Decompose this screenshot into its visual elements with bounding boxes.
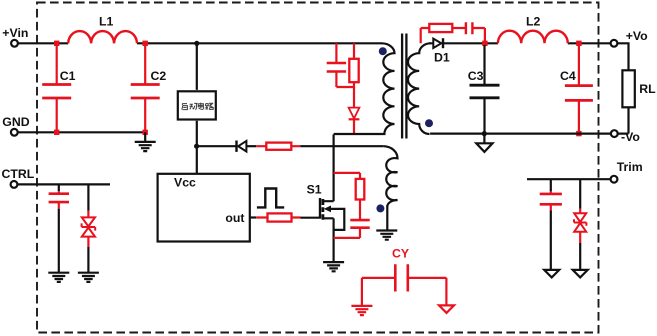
terminal CTRL <box>2 167 35 188</box>
svg-text:C1: C1 <box>60 69 76 83</box>
transformer core <box>402 34 406 139</box>
node D1 cathode <box>482 41 487 46</box>
primary polarity dot <box>379 47 387 55</box>
pulse waveform symbol <box>257 189 284 208</box>
wire CTRL rail <box>17 183 110 185</box>
wire secondary top rail <box>429 42 611 44</box>
svg-text:RL: RL <box>639 82 656 96</box>
capacitor (Trim filter) <box>540 179 562 270</box>
capacitor CY <box>362 247 447 306</box>
terminal -Vo <box>611 130 640 144</box>
resistor (Vcc feed) <box>256 143 300 150</box>
resistor (D1 snubber) <box>429 24 452 32</box>
wire Trim rail <box>527 178 611 180</box>
terminal +Vin <box>2 26 28 46</box>
wire snubber return <box>334 228 360 238</box>
diode D1 <box>433 38 450 64</box>
capacitor (CTRL filter) <box>49 184 69 272</box>
svg-text:D1: D1 <box>434 50 450 64</box>
RCD clamp: resistor branch <box>349 43 358 87</box>
diode (Vcc feed) <box>237 141 257 152</box>
ground (input rail) <box>135 132 156 151</box>
wire GND rail <box>18 131 146 133</box>
ground (CY primary side) <box>351 306 372 315</box>
capacitor C3 <box>468 45 500 134</box>
ground (secondary rail) <box>476 134 492 152</box>
wire gate lead <box>301 217 320 219</box>
aux polarity dot <box>376 204 384 212</box>
svg-text:C4: C4 <box>560 69 576 83</box>
wire snubber right drop <box>472 28 485 43</box>
svg-text:-Vo: -Vo <box>621 130 640 144</box>
resistor (gate drive) <box>256 213 300 221</box>
RC snubber across switch: wire top <box>334 173 360 179</box>
svg-text:L1: L1 <box>99 14 114 28</box>
capacitor (switch snubber) <box>350 220 369 228</box>
wire aux to ground <box>386 206 388 230</box>
terminal GND <box>2 115 29 136</box>
terminal +Vo <box>611 29 649 47</box>
TVS zener (CTRL) <box>82 184 96 272</box>
ground (CTRL capacitor) <box>48 273 69 282</box>
node feed <box>194 144 199 149</box>
wire startup drop <box>196 43 198 174</box>
svg-text:C2: C2 <box>151 69 167 83</box>
inductor L1 <box>68 14 137 43</box>
diode (clamp) <box>349 108 360 135</box>
svg-text:+Vin: +Vin <box>2 26 28 40</box>
inductor L2 <box>498 14 568 43</box>
svg-text:C3: C3 <box>468 69 484 83</box>
svg-text:L2: L2 <box>526 14 541 28</box>
ground (Trim capacitor) <box>544 270 559 278</box>
ground (Trim zener) <box>573 270 588 278</box>
wire secondary bottom rail <box>430 133 611 135</box>
ground (aux winding) <box>376 231 397 240</box>
transistor S1 (N-MOSFET) <box>307 183 345 230</box>
svg-text:Trim: Trim <box>617 160 643 174</box>
node startup-top <box>194 41 199 46</box>
wire snubber mid <box>452 27 466 29</box>
transformer primary winding <box>334 43 395 134</box>
node C1-top <box>54 41 59 46</box>
terminal Trim <box>611 160 643 183</box>
wire +Vin rail <box>18 42 382 44</box>
resistor (switch snubber) <box>356 179 365 200</box>
ground (CTRL zener) <box>78 273 99 282</box>
wire out lead <box>250 216 256 218</box>
transformer aux winding <box>383 146 397 207</box>
capacitor C2 <box>131 43 167 132</box>
TVS zener (Trim) <box>574 179 586 270</box>
wire drain <box>333 134 335 201</box>
node C2-top <box>143 41 148 46</box>
wire feed left <box>197 145 237 147</box>
node C2-bottom <box>143 130 148 135</box>
svg-text:GND: GND <box>2 115 29 129</box>
startup circuit box (qi dong dian lu) <box>178 91 216 119</box>
svg-text:out: out <box>225 211 244 225</box>
RCD clamp: junction wire <box>336 87 354 108</box>
node C4 top <box>576 41 581 46</box>
secondary polarity dot <box>425 119 433 127</box>
svg-text:CY: CY <box>392 247 409 261</box>
resistor RL (load) <box>617 43 656 133</box>
node C4 bottom <box>576 131 581 136</box>
RCD clamp: capacitor branch <box>327 43 346 87</box>
transformer secondary winding <box>408 43 430 134</box>
ground (CY secondary side) <box>439 305 454 313</box>
svg-text:CTRL: CTRL <box>2 167 35 181</box>
capacitor (D1 snubber) <box>466 22 473 34</box>
RC snubber over D1: left drop <box>421 28 430 43</box>
capacitor C4 <box>560 45 593 134</box>
IC box Vcc <box>158 174 250 242</box>
node C3 bottom <box>482 131 487 136</box>
wire source <box>333 218 335 261</box>
ground (source) <box>323 262 344 271</box>
wire snubber mid <box>359 200 361 221</box>
svg-text:Vcc: Vcc <box>174 175 196 189</box>
svg-text:S1: S1 <box>307 183 322 197</box>
svg-text:+Vo: +Vo <box>626 29 648 43</box>
wire feed to aux winding <box>300 145 383 147</box>
node C1-bottom <box>54 130 59 135</box>
capacitor C1 <box>42 43 75 132</box>
